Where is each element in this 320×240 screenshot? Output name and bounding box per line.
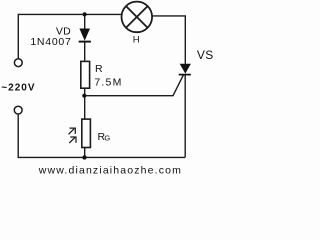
svg-text:~220V: ~220V <box>1 83 35 94</box>
svg-text:H: H <box>133 35 140 46</box>
svg-text:R: R <box>95 63 103 75</box>
svg-text:VS: VS <box>197 48 214 62</box>
svg-text:7.5M: 7.5M <box>94 77 122 89</box>
svg-text:G: G <box>104 134 110 143</box>
svg-text:www.dianziaihaozhe.com: www.dianziaihaozhe.com <box>38 164 182 176</box>
svg-text:1N4007: 1N4007 <box>30 36 71 48</box>
